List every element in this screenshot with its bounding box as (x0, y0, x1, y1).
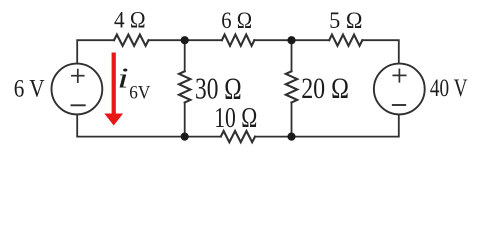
svg-text:10 Ω: 10 Ω (214, 101, 257, 134)
svg-text:20 Ω: 20 Ω (301, 71, 349, 104)
node D junction dot (287, 133, 295, 141)
svg-text:40 V: 40 V (430, 74, 468, 102)
svg-text:5 Ω: 5 Ω (329, 7, 362, 33)
wire 20ohm top lead (291, 40, 293, 71)
V1 plus sign (72, 70, 84, 83)
svg-text:6 V: 6 V (14, 75, 45, 103)
resistor R5 20ohm (286, 71, 297, 102)
voltage source V2 circle (374, 64, 425, 115)
node B junction dot (287, 36, 295, 44)
voltage source V1 circle (52, 64, 103, 115)
V2 plus sign (393, 69, 405, 81)
svg-text:i: i (117, 62, 128, 94)
resistor R6 10ohm (221, 131, 255, 142)
wire bottom rail right segment (255, 114, 399, 136)
resistor R2 6ohm (222, 35, 254, 46)
node C junction dot (181, 133, 189, 141)
V2 minus sign (393, 104, 405, 106)
wire top rail left segment (77, 40, 114, 63)
node A junction dot (181, 36, 189, 44)
wire 30ohm top lead (184, 40, 186, 71)
wire top rail right segment (362, 40, 399, 63)
svg-text:6 Ω: 6 Ω (221, 7, 252, 34)
resistor R3 5ohm (329, 35, 362, 46)
svg-text:4 Ω: 4 Ω (114, 6, 146, 32)
wire bottom rail left segment (77, 114, 221, 136)
wire 30ohm bottom lead (184, 103, 186, 137)
svg-text:6V: 6V (129, 82, 150, 103)
wire top rail between 6ohm and 5ohm (254, 39, 329, 41)
current arrow i6V (104, 53, 123, 126)
V1 minus sign (72, 104, 85, 106)
resistor R4 30ohm (179, 71, 190, 102)
label i_6V (117, 62, 150, 103)
wire top rail between 4ohm and 6ohm (149, 39, 222, 41)
resistor R1 4ohm (114, 35, 149, 46)
wire 20ohm bottom lead (291, 103, 293, 137)
